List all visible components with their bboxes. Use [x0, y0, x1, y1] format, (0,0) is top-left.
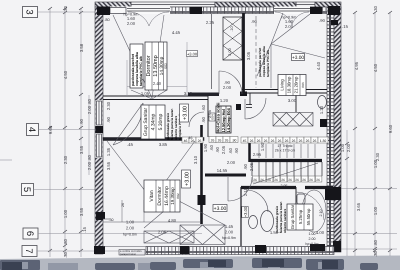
svg-text:4.40: 4.40: [316, 61, 321, 70]
svg-text:2.00: 2.00: [127, 21, 136, 26]
svg-text:+3.00: +3.00: [187, 51, 198, 56]
svg-text:2.00: 2.00: [285, 24, 294, 29]
svg-text:21.20mp: 21.20mp: [294, 76, 299, 93]
svg-text:9.60: 9.60: [48, 125, 53, 134]
svg-text:2.95: 2.95: [281, 184, 288, 188]
svg-text:1.05: 1.05: [141, 91, 150, 96]
svg-text:26: 26: [313, 139, 317, 143]
svg-text:3.55: 3.55: [106, 161, 111, 170]
svg-text:1.30: 1.30: [320, 139, 327, 143]
svg-text:4.80: 4.80: [168, 218, 177, 223]
svg-text:7: 7: [23, 248, 34, 253]
svg-text:26: 26: [198, 139, 202, 143]
svg-text:+3.00: +3.00: [183, 106, 189, 120]
svg-text:2.05: 2.05: [221, 145, 226, 154]
svg-text:.90: .90: [319, 18, 325, 23]
svg-text:3.55: 3.55: [79, 207, 84, 216]
svg-text:2.00: 2.00: [346, 143, 351, 152]
svg-text:4.00: 4.00: [316, 230, 325, 235]
svg-text:3: 3: [24, 9, 35, 14]
svg-text:2.00: 2.00: [87, 161, 92, 170]
svg-text:.60: .60: [201, 104, 206, 110]
svg-text:26: 26: [299, 139, 303, 143]
svg-text:.90: .90: [243, 163, 248, 169]
svg-text:.90: .90: [232, 138, 237, 142]
svg-text:.90: .90: [106, 116, 111, 122]
svg-text:3.00: 3.00: [228, 48, 232, 55]
svg-text:26: 26: [316, 178, 320, 182]
svg-text:5.25mp: 5.25mp: [298, 209, 303, 224]
svg-text:.15: .15: [342, 24, 348, 29]
svg-text:.90: .90: [215, 146, 220, 152]
svg-text:.15: .15: [82, 226, 87, 232]
svg-text:4.50: 4.50: [373, 63, 378, 72]
svg-text:2.25: 2.25: [206, 20, 215, 25]
svg-text:2.30: 2.30: [375, 152, 380, 161]
svg-text:26 x 17.9 cm: 26 x 17.9 cm: [275, 149, 296, 153]
svg-text:45: 45: [243, 139, 247, 143]
svg-text:2.10: 2.10: [319, 210, 323, 217]
svg-text:5: 5: [21, 187, 32, 192]
svg-text:1.00: 1.00: [126, 220, 135, 225]
svg-text:.80: .80: [104, 18, 109, 22]
svg-text:4.45: 4.45: [172, 30, 181, 35]
svg-text:2.40: 2.40: [153, 81, 162, 86]
svg-text:+3.00: +3.00: [243, 206, 248, 217]
svg-text:Grup Sanitar: Grup Sanitar: [143, 107, 149, 136]
svg-text:2.00: 2.00: [309, 237, 316, 241]
svg-text:1.00: 1.00: [373, 206, 378, 215]
svg-text:26: 26: [288, 178, 292, 182]
svg-text:hp=0.0m: hp=0.0m: [123, 233, 137, 237]
svg-text:hp=0.9m: hp=0.9m: [222, 236, 236, 240]
svg-text:6: 6: [24, 231, 35, 236]
svg-text:tamplarie PVC alb: tamplarie PVC alb: [266, 50, 270, 77]
svg-text:2.00: 2.00: [223, 85, 232, 90]
svg-text:.80: .80: [63, 238, 68, 244]
svg-text:Hol+Casa scarii: Hol+Casa scarii: [216, 103, 221, 133]
svg-text:1.35: 1.35: [106, 147, 111, 156]
svg-text:14.20mp E04: 14.20mp E04: [226, 107, 231, 132]
svg-text:.30: .30: [63, 5, 68, 11]
svg-text:.60: .60: [209, 144, 214, 150]
svg-text:26: 26: [253, 178, 257, 182]
svg-text:+3.00: +3.00: [292, 55, 304, 61]
svg-text:2.06: 2.06: [158, 230, 167, 235]
svg-text:2.30: 2.30: [63, 155, 68, 164]
svg-text:E06: E06: [301, 82, 305, 88]
svg-text:Grup Sanitar: Grup Sanitar: [290, 204, 295, 229]
svg-text:55.50mp: 55.50mp: [306, 208, 311, 225]
svg-text:26: 26: [250, 139, 254, 143]
svg-text:+3.00: +3.00: [185, 172, 191, 186]
svg-text:.60: .60: [228, 147, 233, 153]
svg-text:obiecte sanitare: obiecte sanitare: [283, 209, 287, 233]
svg-text:4.34mp: 4.34mp: [151, 113, 157, 130]
svg-text:1.45: 1.45: [225, 224, 234, 229]
svg-text:3.00: 3.00: [288, 98, 297, 103]
svg-text:18.30mp: 18.30mp: [287, 76, 292, 93]
svg-text:3.05: 3.05: [246, 51, 251, 60]
svg-text:2.30: 2.30: [106, 101, 111, 110]
svg-text:.45: .45: [127, 142, 133, 147]
svg-text:4: 4: [26, 127, 37, 132]
svg-text:4.50: 4.50: [63, 70, 68, 79]
svg-text:26: 26: [257, 139, 261, 143]
svg-text:.90: .90: [201, 116, 206, 122]
svg-text:19.30mp: 19.30mp: [170, 187, 175, 205]
svg-text:Vitan: Vitan: [149, 190, 155, 202]
svg-text:26: 26: [309, 178, 313, 182]
svg-text:E03: E03: [164, 63, 168, 69]
svg-text:Living: Living: [280, 79, 285, 91]
svg-text:13.50mp: 13.50mp: [153, 55, 159, 76]
svg-text:hp=0.9m: hp=0.9m: [305, 242, 318, 246]
svg-text:.30: .30: [109, 218, 114, 222]
svg-text:1.00: 1.00: [373, 159, 378, 168]
svg-text:.80: .80: [87, 98, 92, 104]
svg-text:2.95: 2.95: [253, 152, 262, 157]
svg-text:26: 26: [278, 139, 282, 143]
svg-text:26: 26: [292, 139, 296, 143]
svg-text:E02: E02: [176, 193, 180, 199]
svg-text:1.00: 1.00: [340, 143, 345, 152]
svg-text:1.90: 1.90: [203, 143, 208, 152]
svg-text:.90: .90: [79, 118, 84, 124]
svg-text:26: 26: [225, 138, 229, 142]
svg-text:.30: .30: [96, 18, 101, 22]
svg-text:26: 26: [302, 178, 306, 182]
svg-text:1.90: 1.90: [260, 142, 265, 151]
svg-text:1.50: 1.50: [270, 230, 279, 235]
svg-text:26: 26: [281, 178, 285, 182]
svg-text:Dormitor: Dormitor: [157, 186, 163, 206]
svg-text:+3.00: +3.00: [214, 206, 227, 212]
svg-text:2.05: 2.05: [249, 162, 254, 171]
svg-text:26: 26: [264, 139, 268, 143]
svg-text:.90: .90: [251, 19, 257, 24]
svg-text:3.58: 3.58: [79, 43, 84, 52]
svg-text:5.30mp: 5.30mp: [158, 113, 164, 130]
svg-text:26: 26: [211, 138, 215, 142]
svg-text:26: 26: [306, 139, 310, 143]
svg-text:2.00: 2.00: [87, 105, 92, 114]
svg-text:parapet beton: parapet beton: [120, 253, 137, 256]
svg-text:tamplarie PVC alb: tamplarie PVC alb: [139, 56, 143, 86]
svg-text:26: 26: [271, 139, 275, 143]
svg-text:.46: .46: [188, 136, 193, 140]
svg-text:2.00: 2.00: [227, 160, 236, 165]
svg-text:1.00: 1.00: [63, 209, 68, 218]
svg-text:.30: .30: [63, 251, 68, 257]
svg-text:26: 26: [285, 139, 289, 143]
svg-text:3.65: 3.65: [356, 202, 361, 211]
svg-text:.10: .10: [230, 26, 234, 31]
svg-text:1.00: 1.00: [309, 232, 316, 236]
svg-text:4.95: 4.95: [354, 61, 359, 70]
svg-text:9.60: 9.60: [388, 124, 393, 133]
svg-text:1.20: 1.20: [319, 105, 324, 114]
svg-text:2.00: 2.00: [225, 230, 234, 235]
svg-text:3.55: 3.55: [79, 145, 84, 154]
svg-text:.30: .30: [373, 5, 378, 11]
svg-text:.80: .80: [87, 154, 92, 160]
svg-text:26: 26: [218, 138, 222, 142]
svg-text:3.10: 3.10: [193, 155, 198, 164]
svg-text:3.15: 3.15: [184, 91, 193, 96]
svg-text:26: 26: [121, 203, 125, 207]
svg-text:Dormitor: Dormitor: [146, 55, 152, 76]
svg-text:17 Trepte: 17 Trepte: [277, 144, 292, 148]
svg-text:1.20: 1.20: [220, 98, 229, 103]
svg-text:2.05: 2.05: [207, 109, 212, 118]
svg-text:.80: .80: [373, 239, 378, 245]
svg-text:14.55: 14.55: [217, 168, 228, 173]
svg-text:3.85: 3.85: [159, 142, 168, 147]
svg-text:26: 26: [295, 178, 299, 182]
svg-text:26: 26: [274, 178, 278, 182]
svg-text:.90: .90: [234, 147, 239, 153]
svg-text:2.15: 2.15: [243, 187, 248, 196]
svg-text:2.00: 2.00: [126, 226, 135, 231]
svg-text:.30: .30: [373, 250, 378, 256]
